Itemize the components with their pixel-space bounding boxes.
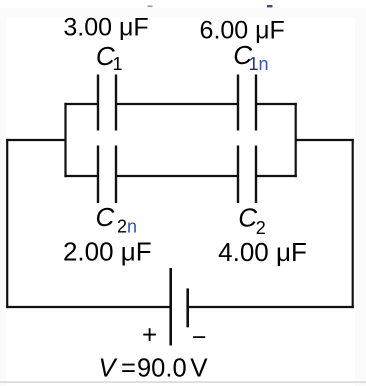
- svg-text:C: C: [238, 203, 257, 233]
- capacitor C1n plates: [237, 75, 239, 131]
- wire: middle-left horizontal to node A: [6, 139, 65, 141]
- wire: middle-right horizontal to node B: [296, 139, 354, 141]
- wire: inner-left vertical: [64, 103, 66, 177]
- wire: top branch right segment: [256, 103, 297, 105]
- stray mark left: [148, 6, 153, 8]
- wire: top branch middle segment: [116, 103, 238, 105]
- wire: outer-left vertical: [6, 139, 8, 308]
- stray mark right: [267, 5, 273, 7]
- svg-text:4.00 μF: 4.00 μF: [218, 237, 307, 267]
- wire: outer-right vertical: [352, 139, 354, 308]
- svg-text:+: +: [142, 319, 157, 349]
- battery V negative short plate: [186, 288, 189, 327]
- svg-text:−: −: [192, 323, 207, 351]
- wire: bottom branch middle segment: [116, 175, 238, 177]
- svg-text:C: C: [96, 202, 115, 232]
- svg-text:2: 2: [256, 218, 266, 238]
- svg-text:3.00 μF: 3.00 μF: [63, 14, 148, 42]
- svg-text:V=90.0V: V=90.0V: [99, 352, 209, 382]
- wire: inner-right vertical: [295, 103, 297, 177]
- battery V positive long plate: [169, 268, 172, 346]
- capacitor C2n plates: [97, 146, 99, 204]
- wire: bottom wire right of battery: [188, 306, 354, 308]
- svg-text:1: 1: [113, 54, 123, 74]
- capacitor C2 plates: [237, 146, 239, 204]
- wire: top branch left segment: [64, 103, 98, 105]
- wire: bottom wire left of battery: [6, 306, 171, 308]
- capacitor C1 plates: [97, 75, 99, 131]
- svg-text:2.00 μF: 2.00 μF: [63, 236, 152, 266]
- wire: bottom branch right segment: [256, 175, 297, 177]
- svg-text:1n: 1n: [249, 54, 269, 74]
- svg-text:2n: 2n: [117, 217, 137, 237]
- wire: bottom branch left segment: [64, 175, 98, 177]
